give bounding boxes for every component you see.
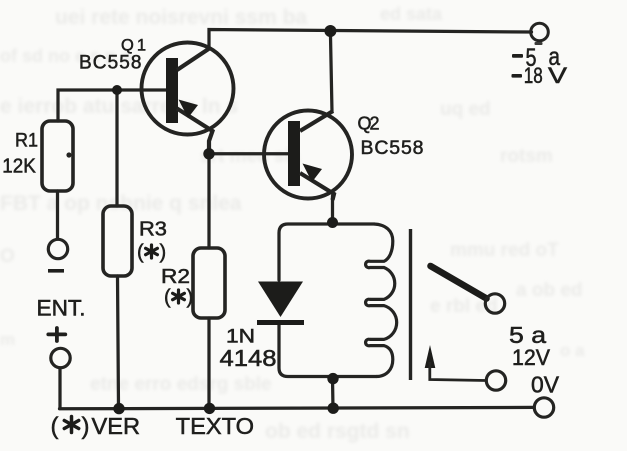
wire bottom rail	[60, 407, 535, 408]
wire plus terminal to bottom rail	[58, 368, 61, 409]
svg-text:a ob ed: a ob ed	[516, 280, 583, 301]
wire node A to Q2 base	[209, 152, 288, 155]
svg-text:VER: VER	[92, 413, 141, 439]
relay coil K1	[366, 224, 397, 377]
svg-text:BC558: BC558	[361, 137, 424, 159]
transistor Q1	[142, 43, 234, 151]
wire R1 bottom to minus terminal	[56, 191, 59, 239]
label (*) for R2	[164, 287, 193, 309]
label minus of -18 V	[512, 74, 523, 78]
svg-text:O: O	[0, 246, 15, 267]
svg-text:R2: R2	[161, 266, 190, 288]
wire R2 bottom	[207, 318, 210, 408]
svg-text:(: (	[164, 287, 171, 309]
resistor R2	[193, 248, 225, 318]
label plus sign (ENT +)	[48, 328, 65, 341]
transistor Q2	[264, 111, 352, 201]
relay core bar	[409, 229, 412, 380]
svg-text:o a: o a	[560, 341, 585, 360]
svg-text:R3: R3	[139, 218, 167, 240]
svg-text:mmu red oT: mmu red oT	[450, 240, 559, 261]
wire R3 bottom	[118, 276, 119, 408]
svg-text:4148: 4148	[220, 345, 277, 371]
svg-text:): )	[160, 242, 167, 264]
svg-text:12K: 12K	[2, 155, 36, 178]
label (*) VER TEXTO	[51, 413, 255, 440]
svg-text:Q2: Q2	[358, 114, 380, 134]
wire Q1 base horizontal	[58, 90, 166, 121]
switch arm	[431, 266, 487, 299]
svg-text:ob ed rsgtd sn: ob ed rsgtd sn	[265, 420, 410, 443]
terminal 0V	[534, 398, 553, 417]
svg-text:TEXTO: TEXTO	[176, 413, 254, 439]
svg-text:(: (	[137, 242, 144, 264]
wire junction to R3	[115, 90, 118, 206]
svg-text:srt med sia: srt med sia	[200, 146, 301, 167]
label minus of -5 a	[512, 54, 523, 58]
wire from top junction down to Q2 collector	[330, 31, 332, 112]
svg-text:0V: 0V	[531, 372, 560, 398]
svg-text:m: m	[0, 330, 15, 349]
switch actuation arrow	[425, 345, 486, 381]
svg-text:(: (	[51, 413, 59, 440]
svg-text:): )	[82, 413, 90, 440]
svg-text:18: 18	[524, 63, 543, 88]
svg-text:R1: R1	[15, 130, 38, 152]
terminal ENT minus	[48, 239, 67, 258]
wire coil top	[279, 224, 374, 280]
terminal -V supply	[531, 23, 549, 41]
label (*) for R3	[137, 242, 166, 264]
svg-text:BC558: BC558	[79, 53, 142, 74]
node base junction	[112, 85, 122, 95]
svg-text:rotsm: rotsm	[500, 146, 553, 167]
diode D1 1N4148	[257, 282, 304, 326]
artifact tick below -V terminal	[535, 42, 543, 45]
resistor R1	[42, 121, 73, 191]
svg-text:12V: 12V	[512, 345, 550, 370]
svg-text:V: V	[548, 63, 567, 88]
terminal ENT plus	[51, 348, 70, 367]
svg-text:uq ed: uq ed	[440, 99, 491, 120]
wire Q2 emitter down	[331, 196, 334, 222]
svg-text:FBT a op nsbnie q snlea: FBT a op nsbnie q snlea	[0, 192, 242, 215]
resistor R3	[103, 206, 132, 276]
wire node A down to R2	[207, 154, 210, 248]
svg-text:uei rete noisrevni ssm ba: uei rete noisrevni ssm ba	[55, 6, 307, 29]
wire diode cathode to coil bottom	[279, 325, 376, 377]
svg-text:ENT.: ENT.	[37, 295, 86, 320]
node top junction	[324, 25, 336, 37]
wire top rail	[209, 30, 532, 48]
node Q2 emitter / coil junction	[327, 217, 338, 228]
node rail R3 junction	[113, 403, 124, 414]
svg-text:e ierrob atu sarre m ln: e ierrob atu sarre m ln s	[0, 95, 238, 118]
svg-text:): )	[187, 287, 194, 309]
wire coil bottom junction to rail	[331, 378, 335, 409]
switch common contact	[485, 294, 504, 313]
node rail coil junction	[328, 403, 339, 414]
blob dot on R1	[66, 152, 71, 157]
switch NO contact	[486, 371, 505, 390]
svg-text:ed sata: ed sata	[380, 4, 443, 24]
label minus sign (ENT -)	[48, 269, 64, 273]
node rail R2 junction	[204, 403, 215, 414]
node coil bottom junction	[327, 373, 338, 384]
node A Q1 emitter junction	[203, 148, 214, 159]
